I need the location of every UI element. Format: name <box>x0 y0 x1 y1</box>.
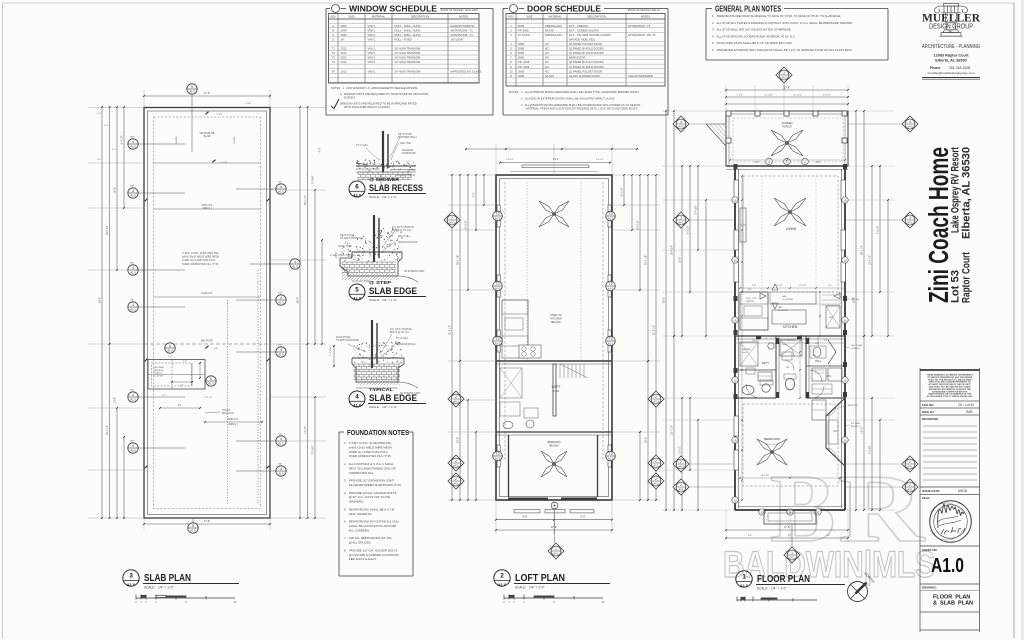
svg-text:2'-1": 2'-1" <box>162 395 166 397</box>
living fan <box>774 198 806 226</box>
svg-text:@ 32" O.C. w/3"x3"x1/4" PLATE: @ 32" O.C. w/3"x3"x1/4" PLATE <box>344 495 390 499</box>
loft right extension lines <box>612 174 660 176</box>
svg-text:4: 4 <box>280 437 282 441</box>
slab plan right dimension lines <box>299 107 301 518</box>
svg-text:10: 10 <box>843 438 847 442</box>
svg-text:ROLL - FIXED: ROLL - FIXED <box>395 37 412 41</box>
svg-text:8'-8": 8'-8" <box>755 161 760 164</box>
svg-text:28'-1 1/4": 28'-1 1/4" <box>861 245 864 255</box>
svg-text:W/TRANSOM - T1: W/TRANSOM - T1 <box>451 28 474 32</box>
svg-text:13'-10": 13'-10" <box>679 446 682 454</box>
svg-text:3: 3 <box>680 216 682 220</box>
svg-text:ARCHITECTURE - PLANNING: ARCHITECTURE - PLANNING <box>922 44 980 50</box>
svg-text:(REF E.): (REF E.) <box>202 207 212 210</box>
right page edge shade <box>1021 0 1024 640</box>
svg-text:-2 1/8": -2 1/8" <box>216 114 223 116</box>
svg-text:HC: HC <box>545 51 549 55</box>
svg-text:10: 10 <box>733 258 737 262</box>
svg-text:BOLTS @ 32" O.C.: BOLTS @ 32" O.C. <box>392 230 412 232</box>
mueller logo column icon <box>934 4 967 37</box>
svg-text:HC: HC <box>545 42 549 46</box>
svg-text:VINYL: VINYL <box>368 24 376 28</box>
svg-text:A4.3: A4.3 <box>908 125 914 128</box>
svg-text:A1.0: A1.0 <box>608 217 614 221</box>
svg-text:7. LAP ALL REINFORCING 48" D: 7. LAP ALL REINFORCING 48" DIA. <box>344 536 393 540</box>
svg-text:WINDOW SCHEDULE: WINDOW SCHEDULE <box>349 5 438 14</box>
window schedule box <box>326 8 330 10</box>
svg-text:5030: 5030 <box>341 33 347 37</box>
svg-text:& SLAB PLAN: & SLAB PLAN <box>933 601 973 607</box>
svg-text:LOFT PLAN: LOFT PLAN <box>515 573 565 584</box>
svg-text:FIBERGLASS: FIBERGLASS <box>545 24 562 28</box>
svg-text:4'-1": 4'-1" <box>180 385 185 387</box>
svg-text:(2) PANEL BI-FOLD DOORS: (2) PANEL BI-FOLD DOORS <box>569 51 604 55</box>
svg-text:W/TRANSOM - T3: W/TRANSOM - T3 <box>451 33 474 37</box>
svg-text:60'-0": 60'-0" <box>297 297 300 303</box>
svg-text:2'-0": 2'-0" <box>97 113 102 115</box>
svg-text:DIVIDES.: DIVIDES. <box>344 95 356 99</box>
detail 6 shower slab recess drawing <box>382 131 384 172</box>
svg-text:BASIS OF DESIGN: PELLA: BASIS OF DESIGN: PELLA <box>628 8 660 12</box>
svg-text:1'-0": 1'-0" <box>168 356 172 358</box>
svg-text:4" MIN. CONC. SLAB (2500 PSI): 4" MIN. CONC. SLAB (2500 PSI) <box>182 252 219 255</box>
svg-text:23'-7 1/4": 23'-7 1/4" <box>671 425 674 435</box>
svg-text:A4.3: A4.3 <box>654 400 660 403</box>
svg-text:HC: HC <box>545 47 549 51</box>
svg-text:40x40: 40x40 <box>742 352 747 354</box>
loft left extension lines <box>448 174 496 176</box>
svg-text:MATERIAL: MATERIAL <box>548 14 562 18</box>
svg-text:SCALE: 1/4" = 1'-0": SCALE: 1/4" = 1'-0" <box>144 586 174 590</box>
washer dryer rects <box>812 368 826 381</box>
svg-text:63 SF: 63 SF <box>553 390 560 393</box>
svg-text:RAB: RAB <box>966 410 973 414</box>
svg-text:29'-4 1/8": 29'-4 1/8" <box>645 255 648 265</box>
floor plan diamonds right <box>902 116 918 132</box>
sheet border left <box>2 3 4 638</box>
screen porch outline <box>726 111 848 166</box>
svg-text:PER S/A2.0 & A/A2.0: PER S/A2.0 & A/A2.0 <box>344 557 377 561</box>
svg-text:5: 5 <box>355 287 359 294</box>
seal arc text ticks <box>930 503 963 540</box>
loft bottom diamond <box>548 543 564 559</box>
bath walls <box>775 336 777 398</box>
svg-text:3044: 3044 <box>341 28 347 32</box>
svg-text:A1.0: A1.0 <box>130 145 136 149</box>
svg-text:10: 10 <box>733 438 737 442</box>
svg-text:BOLTS @ 32" O.C.: BOLTS @ 32" O.C. <box>390 332 410 334</box>
svg-text:A1.0: A1.0 <box>292 265 298 269</box>
svg-text:TF: TF <box>332 69 336 73</box>
revisions ruled lines <box>923 425 977 427</box>
svg-text:TYPICAL: TYPICAL <box>369 387 394 392</box>
svg-text:A1.0: A1.0 <box>278 190 284 194</box>
svg-text:6" MIN: 6" MIN <box>330 255 337 257</box>
svg-text:SIM: SIM <box>130 390 134 392</box>
svg-text:(2) PANEL BI-FOLD DOORS: (2) PANEL BI-FOLD DOORS <box>569 65 604 69</box>
loft wall window marks left <box>497 205 500 227</box>
svg-text:CLEAR/TEMPERED: CLEAR/TEMPERED <box>628 74 653 78</box>
slab plan left extension lines <box>88 107 144 109</box>
svg-text:3050: 3050 <box>341 24 347 28</box>
svg-text:T3: T3 <box>609 452 613 456</box>
svg-text:PR. 2068: PR. 2068 <box>518 65 530 69</box>
svg-text:TO MATCH EXISTING: TO MATCH EXISTING <box>340 237 363 240</box>
bedroom dashed ceiling <box>743 404 838 486</box>
svg-text:7'-5 3/8": 7'-5 3/8" <box>312 445 315 454</box>
svg-text:14" HIGH TRANSOM: 14" HIGH TRANSOM <box>395 56 421 60</box>
floor plan bottom dimension lines <box>726 529 848 531</box>
svg-text:251-318-3108: 251-318-3108 <box>949 66 970 70</box>
title block bottom rule <box>920 629 980 631</box>
svg-text:5'-0": 5'-0" <box>104 125 109 127</box>
svg-text:CONC. STEP: CONC. STEP <box>338 246 353 248</box>
slab mid point dashed line <box>144 343 270 345</box>
porch entry steps <box>706 124 726 146</box>
svg-text:8'-8": 8'-8" <box>816 161 821 164</box>
svg-text:11'-4" x 10'-8": 11'-4" x 10'-8" <box>765 444 779 446</box>
svg-text:C: C <box>332 33 334 37</box>
bedroom interior dim <box>740 477 840 479</box>
svg-text:8. PROVIDE 1/2" DIA. ANCHOR: 8. PROVIDE 1/2" DIA. ANCHOR BOLTS <box>344 548 397 552</box>
svg-text:ROLL - SNGL. HUNG: ROLL - SNGL. HUNG <box>395 24 421 28</box>
svg-text:KEY: KEY <box>331 14 337 18</box>
bath fixtures <box>742 385 754 394</box>
svg-text:4: 4 <box>280 296 282 300</box>
svg-text:EXT. - SCREEN DOORS: EXT. - SCREEN DOORS <box>569 28 599 32</box>
svg-text:SIM: SIM <box>130 441 134 443</box>
svg-text:5'-4 1/2": 5'-4 1/2" <box>752 340 760 342</box>
detail 4 typical slab edge drawing <box>371 320 373 368</box>
svg-text:SLOPE: SLOPE <box>176 136 178 144</box>
svg-text:P.T. 2x SILL: P.T. 2x SILL <box>398 236 411 238</box>
svg-text:SCALE: 1/2" = 1'-0": SCALE: 1/2" = 1'-0" <box>369 195 397 199</box>
svg-text:2: 2 <box>455 477 457 481</box>
svg-text:Elberta, AL 36530: Elberta, AL 36530 <box>935 59 966 63</box>
svg-text:1: 1 <box>791 551 793 555</box>
svg-text:A1.0: A1.0 <box>278 472 284 476</box>
svg-text:3'-1": 3'-1" <box>112 149 117 151</box>
svg-text:4: 4 <box>280 185 282 189</box>
svg-text:16'-9 1/2": 16'-9 1/2" <box>761 475 770 477</box>
svg-text:NOTES: NOTES <box>641 14 650 18</box>
svg-text:3012: 3012 <box>341 51 347 55</box>
svg-text:2668: 2668 <box>518 42 524 46</box>
svg-text:BUILT-INS: BUILT-INS <box>848 405 858 407</box>
svg-text:4: 4 <box>280 348 282 352</box>
svg-text:4: 4 <box>355 394 359 401</box>
svg-text:10' PATIO: 10' PATIO <box>518 33 530 37</box>
svg-text:5'-0": 5'-0" <box>97 159 102 161</box>
svg-text:A1.0: A1.0 <box>189 90 195 94</box>
svg-text:17'-8": 17'-8" <box>204 520 210 523</box>
svg-text:@ STEP: @ STEP <box>369 280 391 285</box>
floor plan left extension lines <box>662 110 735 112</box>
living room dashed ceiling rect <box>743 176 838 292</box>
svg-text:16'-4 1/2": 16'-4 1/2" <box>869 255 872 265</box>
svg-text:T3: T3 <box>496 452 500 456</box>
floor plan right extension lines <box>845 110 895 112</box>
detail 5 title <box>349 284 365 301</box>
svg-text:COUNTER: COUNTER <box>778 310 788 312</box>
svg-text:ROLL - SNGL. HUNG: ROLL - SNGL. HUNG <box>395 28 421 32</box>
svg-text:2668: 2668 <box>518 56 524 60</box>
svg-text:10'-6": 10'-6" <box>114 397 117 403</box>
svg-text:2012: 2012 <box>341 69 347 73</box>
svg-text:SIM: SIM <box>278 464 282 466</box>
loft inner dashed lines <box>504 182 506 460</box>
svg-text:SIM: SIM <box>278 434 282 436</box>
svg-text:10: 10 <box>843 258 847 262</box>
svg-text:51'-8 1/2": 51'-8 1/2" <box>653 325 656 335</box>
porch posts <box>726 111 731 116</box>
svg-text:FAUX STONE: FAUX STONE <box>336 336 351 339</box>
svg-text:CLT.: CLT. <box>833 430 838 433</box>
svg-text:4'-8": 4'-8" <box>826 535 831 537</box>
svg-text:VINYL: VINYL <box>368 56 376 60</box>
svg-text:2. ALL FOOTINGS & S.O.G.'s S: 2. ALL FOOTINGS & S.O.G.'s SHALL <box>344 462 394 466</box>
svg-text:A4.1: A4.1 <box>454 464 460 467</box>
svg-text:BASIS OF DESIGN: JELD-WEN: BASIS OF DESIGN: JELD-WEN <box>441 8 478 12</box>
svg-text:3: 3 <box>129 573 133 580</box>
middle rooms band (bath/wc/util/hall) <box>735 335 845 337</box>
floor plan top dimension lines <box>726 89 848 91</box>
svg-text:@ COLUMN & CORNER LOCATIONS: @ COLUMN & CORNER LOCATIONS <box>344 553 399 557</box>
svg-text:2: 2 <box>500 573 504 580</box>
svg-text:A4.1: A4.1 <box>908 465 914 468</box>
svg-text:4: 4 <box>132 189 134 193</box>
svg-text:2: 2 <box>680 460 682 464</box>
svg-text:PULL OUT: PULL OUT <box>746 298 757 300</box>
svg-text:INC.: INC. <box>948 30 954 34</box>
svg-text:A1.0: A1.0 <box>740 583 749 588</box>
svg-text:6012: 6012 <box>341 60 347 64</box>
svg-text:6'-2": 6'-2" <box>788 535 793 537</box>
svg-text:23'-7 1/4": 23'-7 1/4" <box>106 425 109 435</box>
svg-text:3'-1 1/2": 3'-1 1/2" <box>775 285 783 287</box>
svg-text:10: 10 <box>733 318 737 322</box>
svg-text:GENERAL PLAN NOTES: GENERAL PLAN NOTES <box>715 5 781 14</box>
svg-text:WITH INSULATED IMPACT GLAZING.: WITH INSULATED IMPACT GLAZING. <box>344 105 391 109</box>
mid band extra clutter <box>780 340 802 356</box>
svg-text:OVER (1) LAYER 6 MIL POLY: OVER (1) LAYER 6 MIL POLY <box>182 259 216 262</box>
slab interior lines <box>154 162 261 164</box>
svg-text:VINYL: VINYL <box>368 60 376 64</box>
svg-text:14" HIGH TRANSOM: 14" HIGH TRANSOM <box>395 60 421 64</box>
svg-text:SLAB: SLAB <box>204 134 211 138</box>
door schedule table <box>506 14 665 87</box>
svg-text:w/FROSTED INT. GLASS: w/FROSTED INT. GLASS <box>451 69 482 73</box>
svg-text:14" HIGH TRANSOM: 14" HIGH TRANSOM <box>395 69 421 73</box>
svg-text:SIM: SIM <box>278 293 282 295</box>
svg-text:8'-8": 8'-8" <box>523 516 528 519</box>
bedroom zone <box>735 397 776 399</box>
svg-text:DOOR SCHEDULE: DOOR SCHEDULE <box>527 5 602 14</box>
svg-text:A4.1: A4.1 <box>679 221 685 224</box>
detail 4 title <box>349 391 365 408</box>
svg-text:17'-8": 17'-8" <box>784 526 790 529</box>
svg-text:(2) #5 1/2" THICK: (2) #5 1/2" THICK <box>352 281 371 283</box>
svg-text:A4.3: A4.3 <box>782 76 788 79</box>
svg-text:SLAB RECESS: SLAB RECESS <box>369 183 423 194</box>
svg-text:Phone: Phone <box>930 66 940 70</box>
svg-text:2: 2 <box>451 216 453 220</box>
loft kitchen counters below (open) <box>502 300 528 358</box>
svg-text:29'-4 1/8": 29'-4 1/8" <box>457 255 460 265</box>
slab plan outline <box>144 108 270 519</box>
svg-text:A1.0: A1.0 <box>278 301 284 305</box>
svg-text:FOUNDATION NOTES: FOUNDATION NOTES <box>347 428 409 437</box>
svg-text:A1.0: A1.0 <box>608 342 614 346</box>
svg-text:2'-1": 2'-1" <box>178 405 183 407</box>
svg-text:LIN.: LIN. <box>786 367 790 369</box>
svg-text:AND-ROID W.W.M.: AND-ROID W.W.M. <box>396 343 416 346</box>
svg-text:@ SHOWER: @ SHOWER <box>369 177 399 182</box>
svg-text:DESCRIPTION: DESCRIPTION <box>587 14 605 18</box>
svg-text:4: 4 <box>294 260 296 264</box>
svg-text:2: 2 <box>655 459 657 463</box>
svg-text:16'-0": 16'-0" <box>679 257 682 263</box>
svg-text:LEVELING: LEVELING <box>402 150 413 152</box>
svg-text:7'-0 5/8": 7'-0 5/8" <box>312 175 315 184</box>
svg-text:SCREEN: SCREEN <box>782 121 793 125</box>
svg-text:CD #5 BARS CONT.: CD #5 BARS CONT. <box>404 270 425 273</box>
svg-text:20'-0": 20'-0" <box>457 437 460 443</box>
svg-text:SKYLIGHT: SKYLIGHT <box>451 37 465 41</box>
svg-text:1. 4" MIN. CONC. SLAB (2500: 1. 4" MIN. CONC. SLAB (2500 PSI) <box>344 441 391 445</box>
svg-text:1/8": 1/8" <box>214 348 218 350</box>
file no row <box>920 400 980 402</box>
floor plan diamonds left <box>673 116 689 132</box>
loft top rail (balcony) <box>522 165 589 168</box>
svg-text:9'-0 1/8": 9'-0 1/8" <box>687 225 690 234</box>
svg-text:2: 2 <box>680 483 682 487</box>
main outer walls <box>734 166 736 510</box>
drawing heading row <box>920 583 980 585</box>
svg-text:SLAB EDGE: SLAB EDGE <box>369 286 418 297</box>
svg-text:12: 12 <box>760 510 764 514</box>
svg-text:HC: HC <box>545 56 549 60</box>
svg-text:A1.0: A1.0 <box>498 582 507 587</box>
svg-text:NOTES: 1. ALL EXTERIOR DOOR: NOTES: 1. ALL EXTERIOR DOOR HARDWARE SHA… <box>509 90 640 94</box>
svg-text:4'-0": 4'-0" <box>319 147 322 152</box>
svg-text:2: 2 <box>909 483 911 487</box>
svg-text:ZH - Lot 53: ZH - Lot 53 <box>958 403 974 407</box>
door jamb marks <box>776 338 779 344</box>
bedroom closet arcs <box>826 406 836 416</box>
svg-text:10: 10 <box>733 498 737 502</box>
svg-text:MATERIAL, FINISH AND LOCATIONS: MATERIAL, FINISH AND LOCATIONS OF PASSAG… <box>526 106 639 110</box>
interior dim string right of kitchen <box>819 292 821 336</box>
svg-text:1. DIMENSIONS ARE FROM SLAB: 1. DIMENSIONS ARE FROM SLAB EDGE TO FACE… <box>712 14 842 18</box>
loft plan title <box>494 570 510 587</box>
svg-text:5. ROOF INSULATION SHALL BE: 5. ROOF INSULATION SHALL BE 5 1/2" OF SP… <box>712 41 793 45</box>
svg-text:SIM: SIM <box>278 182 282 184</box>
svg-text:SAW CUT: SAW CUT <box>228 418 239 421</box>
right wall hex markers <box>842 197 849 203</box>
svg-text:T3: T3 <box>609 337 613 341</box>
svg-text:A4.1: A4.1 <box>908 488 914 491</box>
svg-text:(SHOWER WALL): (SHOWER WALL) <box>398 136 417 139</box>
svg-text:SIM: SIM <box>130 137 134 139</box>
svg-text:BARN DOOR: BARN DOOR <box>569 56 585 60</box>
svg-text:NOTES: NOTES <box>459 14 468 18</box>
svg-text:W.H.: W.H. <box>815 343 820 345</box>
left wall hex markers <box>732 197 739 203</box>
svg-text:5/8" GYP. BD.: 5/8" GYP. BD. <box>398 134 413 136</box>
svg-text:SLAB EDGE: SLAB EDGE <box>369 393 418 404</box>
slab plan inner dashed edge <box>154 117 261 509</box>
svg-text:LIVING: LIVING <box>786 227 797 231</box>
svg-text:BAR: BAR <box>782 295 787 298</box>
svg-text:T3: T3 <box>609 282 613 286</box>
kitchen counters <box>740 292 768 330</box>
svg-text:4: 4 <box>132 303 134 307</box>
svg-text:SIZE: SIZE <box>349 14 355 18</box>
svg-text:COMPACTED FILL.: COMPACTED FILL. <box>344 471 375 475</box>
loft bottom dimension lines <box>496 519 612 521</box>
svg-text:Elberta, AL 36530: Elberta, AL 36530 <box>961 147 973 239</box>
svg-text:EXT. - FRENCH: EXT. - FRENCH <box>569 24 588 28</box>
kitchen extra marks <box>822 294 840 296</box>
svg-text:(2) PANEL BI-FOLD DOORS: (2) PANEL BI-FOLD DOORS <box>569 60 604 64</box>
bed wall niche right <box>826 398 845 466</box>
title block top rule <box>920 369 980 371</box>
svg-text:KEY: KEY <box>508 14 514 18</box>
loft right dimension lines <box>655 175 657 500</box>
porch ceiling fan <box>771 130 803 156</box>
loft plan scale bar <box>504 595 603 600</box>
slab top flag marks <box>205 112 208 115</box>
svg-text:A1.0: A1.0 <box>130 194 136 198</box>
svg-text:A1.0: A1.0 <box>278 353 284 357</box>
svg-text:EXT. - PR. 3068 SLIDING DOORS: EXT. - PR. 3068 SLIDING DOORS <box>569 33 611 37</box>
svg-text:T3: T3 <box>609 212 613 216</box>
svg-text:SIM: SIM <box>278 345 282 347</box>
svg-text:DWG BY:: DWG BY: <box>922 410 935 414</box>
svg-text:VINYL: VINYL <box>368 37 376 41</box>
floor plan title <box>736 571 752 588</box>
kitchen arrows <box>772 284 778 290</box>
bottom wall <box>735 509 845 511</box>
svg-text:TOILET: TOILET <box>222 410 231 412</box>
slab plan top dimension lines <box>144 95 270 97</box>
svg-text:W.C.: W.C. <box>812 355 817 357</box>
svg-text:HALL: HALL <box>815 360 822 363</box>
svg-text:A4.1: A4.1 <box>679 488 685 491</box>
svg-text:2: 2 <box>455 395 457 399</box>
svg-text:A1.0: A1.0 <box>167 349 173 353</box>
svg-text:2'-0 1/2": 2'-0 1/2" <box>506 159 514 161</box>
loft room fixtures <box>500 368 522 398</box>
svg-text:T3: T3 <box>496 337 500 341</box>
svg-text:SHOWER: SHOWER <box>742 349 751 351</box>
svg-text:HC: HC <box>545 60 549 64</box>
loft open area fan <box>539 201 569 227</box>
svg-text:9'-4 1/8": 9'-4 1/8" <box>465 220 468 229</box>
svg-text:2668: 2668 <box>518 74 524 78</box>
bedroom fan <box>757 439 787 465</box>
svg-text:5'-2": 5'-2" <box>824 340 828 342</box>
svg-text:A4.3: A4.3 <box>450 221 456 224</box>
issue date row <box>920 486 980 488</box>
svg-text:T3: T3 <box>332 56 336 60</box>
svg-text:12: 12 <box>788 510 792 514</box>
svg-text:6/5/18: 6/5/18 <box>958 489 967 493</box>
architect seal <box>930 501 972 543</box>
svg-text:SLAB 2": SLAB 2" <box>154 372 162 375</box>
living window marks right wall <box>841 180 846 200</box>
